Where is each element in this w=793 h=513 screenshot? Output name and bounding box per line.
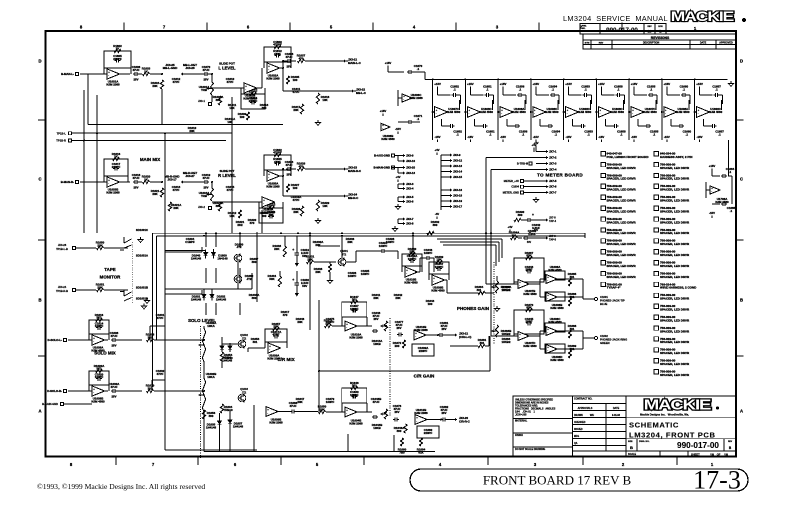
svg-text:100PF: 100PF — [424, 251, 433, 255]
svg-text:NO.: NO. — [582, 28, 586, 30]
svg-text:-: - — [600, 113, 601, 116]
svg-text:.1: .1 — [456, 132, 459, 136]
svg-text:NJM 4560: NJM 4560 — [91, 399, 105, 403]
svg-text:-15V: -15V — [709, 211, 715, 215]
svg-text:10K: 10K — [322, 98, 328, 102]
svg-text:PCB, LM3204 FRONT BOARD: PCB, LM3204 FRONT BOARD — [607, 155, 650, 159]
svg-text:20K: 20K — [293, 108, 299, 112]
svg-text:SHEET: SHEET — [691, 453, 700, 457]
svg-text:SPACER, LED DRVR: SPACER, LED DRVR — [660, 209, 690, 213]
svg-text:47PF: 47PF — [227, 80, 234, 84]
svg-text:301: 301 — [477, 288, 482, 292]
svg-text:1N4148: 1N4148 — [233, 424, 244, 428]
svg-text:1N4148: 1N4148 — [217, 256, 228, 260]
svg-text:25V: 25V — [397, 326, 402, 330]
svg-text:100: 100 — [428, 302, 433, 306]
svg-text:PHONES-JACK-TIP: PHONES-JACK-TIP — [600, 299, 625, 303]
svg-text:TP1B-L: TP1B-L — [57, 131, 67, 135]
svg-text:JX0-1: JX0-1 — [198, 99, 205, 103]
svg-text:L LEVEL: L LEVEL — [218, 66, 236, 71]
svg-text:301: 301 — [512, 233, 517, 237]
svg-text:.1: .1 — [555, 132, 558, 136]
svg-text:SPACER, LED DRVR: SPACER, LED DRVR — [660, 242, 690, 246]
svg-text:20K: 20K — [347, 240, 353, 244]
svg-text:TAPE: TAPE — [104, 267, 115, 272]
svg-text:JX3-12: JX3-12 — [453, 159, 462, 163]
svg-text:.1: .1 — [417, 117, 420, 121]
svg-text:+: + — [532, 213, 534, 217]
svg-text:NJM 2068: NJM 2068 — [106, 82, 120, 86]
svg-text:100PF: 100PF — [386, 240, 395, 244]
svg-text:-: - — [501, 113, 502, 116]
svg-text:360: 360 — [252, 296, 257, 300]
svg-text:-: - — [436, 113, 437, 116]
svg-text:10KB2: 10KB2 — [502, 332, 511, 336]
svg-text:SPACER, LED DRVR: SPACER, LED DRVR — [607, 220, 637, 224]
svg-text:SPACER, LED DRVR: SPACER, LED DRVR — [660, 166, 690, 170]
svg-text:47PF: 47PF — [157, 372, 164, 376]
svg-text:-15V: -15V — [395, 127, 401, 131]
svg-text:470PF: 470PF — [273, 43, 282, 47]
svg-text:50V: 50V — [302, 284, 307, 288]
svg-text:WH: WH — [590, 413, 594, 417]
svg-text:990-017-00: 990-017-00 — [606, 27, 638, 34]
svg-text:18: 18 — [724, 453, 728, 457]
svg-text:JX3-27: JX3-27 — [185, 174, 195, 178]
svg-text:10KB2: 10KB2 — [502, 288, 511, 292]
svg-text:SOLO MIX: SOLO MIX — [94, 351, 116, 356]
svg-text:NJM 4560: NJM 4560 — [643, 110, 657, 114]
svg-text:20K: 20K — [293, 210, 299, 214]
svg-text:SPACER, LED DRVR: SPACER, LED DRVR — [607, 242, 637, 246]
svg-text:GREEN: GREEN — [600, 341, 610, 345]
svg-text:47UF: 47UF — [202, 176, 209, 180]
svg-text:JT2: JT2 — [242, 337, 247, 341]
svg-text:47UF: 47UF — [289, 404, 296, 408]
svg-text:301: 301 — [480, 341, 485, 345]
svg-text:SD1601C: SD1601C — [136, 228, 148, 232]
svg-text:JX3-7: JX3-7 — [406, 217, 414, 221]
svg-text:JX3-3: JX3-3 — [406, 182, 414, 186]
svg-text:.1: .1 — [584, 87, 587, 91]
svg-text:+15V: +15V — [565, 82, 572, 86]
svg-text:MB-R-C: MB-R-C — [348, 196, 358, 200]
svg-text:JX3-14: JX3-14 — [453, 170, 462, 174]
svg-text:JX7-2: JX7-2 — [549, 156, 557, 160]
svg-text:-: - — [547, 332, 548, 335]
svg-text:D: D — [740, 59, 743, 64]
svg-text:301: 301 — [253, 340, 258, 344]
svg-text:CONTRACT NO.: CONTRACT NO. — [574, 398, 593, 401]
svg-text:+15V: +15V — [380, 109, 387, 113]
svg-text:JX3-15: JX3-15 — [453, 175, 462, 179]
svg-text:Q1603: Q1603 — [240, 387, 248, 391]
svg-text:+15V: +15V — [533, 82, 540, 86]
svg-text:100PF: 100PF — [350, 393, 359, 397]
svg-text:REV: REV — [599, 43, 604, 45]
svg-text:-: - — [698, 113, 699, 116]
svg-text:APPROVED: APPROVED — [719, 42, 733, 45]
svg-text:+15V: +15V — [709, 164, 716, 168]
svg-text:200: 200 — [395, 344, 400, 348]
svg-text:100PF: 100PF — [435, 265, 444, 269]
svg-text:47PF: 47PF — [293, 90, 300, 94]
svg-text:TRB10: TRB10 — [223, 408, 233, 412]
svg-text:SPACER, LED DRVR: SPACER, LED DRVR — [607, 199, 637, 203]
svg-text:JX3-13: JX3-13 — [453, 164, 462, 168]
svg-text:100PF: 100PF — [95, 375, 104, 379]
svg-text:SPACER, LED DRVR: SPACER, LED DRVR — [607, 209, 637, 213]
svg-text:Q1601: Q1601 — [340, 249, 348, 253]
svg-text:NJM 4560: NJM 4560 — [550, 358, 564, 362]
svg-text:360: 360 — [252, 260, 257, 264]
svg-text:A: A — [740, 409, 743, 414]
svg-text:JT2: JT2 — [242, 391, 247, 395]
svg-text:ISSUED: ISSUED — [574, 429, 583, 431]
svg-text:-15V: -15V — [664, 135, 670, 139]
svg-text:B-MAN-R-: B-MAN-R- — [61, 180, 74, 184]
svg-text:HARNESS ASSY, 2 PIN: HARNESS ASSY, 2 PIN — [660, 155, 692, 159]
svg-text:C1602: C1602 — [600, 334, 608, 338]
svg-text:47PF: 47PF — [274, 160, 281, 164]
svg-text:D: D — [38, 59, 41, 64]
svg-text:20K: 20K — [97, 285, 103, 289]
svg-text:D-SOLO-R-: D-SOLO-R- — [47, 389, 62, 393]
svg-text:SD1601B: SD1601B — [136, 286, 148, 290]
svg-text:470PF: 470PF — [273, 151, 282, 155]
svg-text:-: - — [403, 99, 404, 102]
svg-text:R LEVEL: R LEVEL — [218, 173, 236, 178]
svg-text:.1: .1 — [686, 132, 689, 136]
svg-text:C/R-R-C: C/R-R-C — [459, 419, 470, 423]
svg-text:-: - — [406, 273, 407, 276]
svg-text:-: - — [534, 113, 535, 116]
svg-text:470: 470 — [299, 56, 304, 60]
svg-text:NJM 4560: NJM 4560 — [512, 110, 526, 114]
svg-text:25V: 25V — [287, 173, 292, 177]
svg-text:NJM 4560: NJM 4560 — [523, 292, 537, 296]
svg-text:B-AUX-GND: B-AUX-GND — [374, 154, 390, 158]
svg-text:1N4148: 1N4148 — [216, 297, 227, 301]
svg-text:301: 301 — [352, 384, 357, 388]
svg-text:-: - — [665, 113, 666, 116]
svg-text:9-01-93: 9-01-93 — [612, 415, 621, 417]
svg-text:JX7-5: JX7-5 — [549, 179, 557, 183]
svg-text:20K: 20K — [315, 270, 321, 274]
svg-text:100: 100 — [293, 78, 298, 82]
svg-text:NJM 4560: NJM 4560 — [404, 280, 418, 284]
svg-text:17-3: 17-3 — [693, 466, 741, 495]
svg-text:CHECKED: CHECKED — [574, 422, 586, 424]
svg-text:NJM 4560: NJM 4560 — [545, 110, 559, 114]
svg-text:.1: .1 — [617, 87, 620, 91]
svg-text:D-SOLO-L-: D-SOLO-L- — [48, 338, 63, 342]
svg-text:220PF: 220PF — [419, 349, 428, 353]
svg-text:WIRE HARNESS, 2 COND: WIRE HARNESS, 2 COND — [660, 286, 697, 290]
svg-text:SPACER, LED DRVR: SPACER, LED DRVR — [660, 308, 690, 312]
svg-text:-: - — [346, 413, 347, 416]
svg-text:470: 470 — [299, 164, 304, 168]
svg-text:TYRAP 4": TYRAP 4" — [607, 286, 622, 290]
svg-text:MAIN-L-C: MAIN-L-C — [348, 61, 361, 65]
svg-text:-: - — [346, 327, 347, 330]
svg-text:20K: 20K — [273, 325, 279, 329]
svg-text:360: 360 — [262, 106, 267, 110]
svg-text:NJM 4560: NJM 4560 — [550, 306, 564, 310]
svg-text:MFG: MFG — [574, 436, 579, 438]
svg-text:JX7-3: JX7-3 — [549, 162, 557, 166]
svg-text:+4V: +4V — [434, 148, 439, 152]
svg-text:OF: OF — [717, 453, 721, 457]
svg-text:QA: QA — [574, 442, 578, 445]
svg-text:-: - — [269, 349, 270, 352]
svg-text:360: 360 — [518, 213, 523, 217]
svg-text:SYM: SYM — [585, 43, 590, 45]
svg-text:JX3-28: JX3-28 — [58, 243, 67, 247]
svg-text:+15V: +15V — [500, 82, 507, 86]
svg-text:25V: 25V — [204, 78, 209, 82]
svg-text:SPACER, LED DRVR: SPACER, LED DRVR — [660, 318, 690, 322]
svg-text:20K: 20K — [315, 243, 321, 247]
svg-text:(C/R-L-C): (C/R-L-C) — [459, 335, 471, 339]
svg-text:100PF: 100PF — [350, 307, 359, 311]
svg-text:25V: 25V — [395, 410, 400, 414]
svg-text:100PF: 100PF — [408, 257, 417, 261]
svg-text:.1: .1 — [489, 132, 492, 136]
svg-text:DATE: DATE — [613, 407, 620, 410]
svg-text:.1: .1 — [653, 132, 656, 136]
svg-text:NJM 4560: NJM 4560 — [548, 268, 562, 272]
svg-text:SPACER, LED DRVR: SPACER, LED DRVR — [607, 188, 637, 192]
svg-text:20K: 20K — [152, 192, 158, 196]
svg-text:JT2: JT2 — [247, 277, 252, 281]
svg-text:NJM 4560: NJM 4560 — [676, 110, 690, 114]
svg-text:+15V: +15V — [664, 82, 671, 86]
svg-text:.1: .1 — [730, 209, 733, 213]
svg-text:ECN: ECN — [658, 26, 663, 28]
svg-text:SPACER, LED DRVR: SPACER, LED DRVR — [607, 177, 637, 181]
svg-text:10K: 10K — [322, 204, 328, 208]
svg-text:SPACER, LED DRVR: SPACER, LED DRVR — [607, 166, 637, 170]
svg-text:-: - — [469, 113, 470, 116]
svg-text:SPACER, LED DRVR: SPACER, LED DRVR — [660, 220, 690, 224]
svg-text:B: B — [38, 298, 41, 303]
svg-text:220PF: 220PF — [112, 165, 121, 169]
svg-text:20K: 20K — [373, 296, 379, 300]
svg-text:+: + — [292, 278, 294, 282]
svg-text:.1: .1 — [486, 87, 489, 91]
svg-text:-: - — [108, 183, 109, 186]
svg-text:-15V: -15V — [566, 135, 572, 139]
svg-text:SPACER, LED DRVR: SPACER, LED DRVR — [660, 188, 690, 192]
svg-text:REV: REV — [647, 26, 652, 28]
svg-text:-: - — [567, 113, 568, 116]
svg-text:360: 360 — [262, 214, 267, 218]
svg-text:-: - — [93, 341, 94, 344]
svg-text:NJM 4560: NJM 4560 — [447, 110, 461, 114]
svg-text:NJM 2068: NJM 2068 — [266, 76, 280, 80]
svg-text:.1: .1 — [522, 132, 525, 136]
svg-text:.1: .1 — [417, 67, 420, 71]
svg-text:SPACER, LED DRVR: SPACER, LED DRVR — [660, 264, 690, 268]
svg-text:LM3204 SERVICE MANUAL: LM3204 SERVICE MANUAL — [563, 14, 668, 23]
svg-text:JX3-6: JX3-6 — [406, 200, 414, 204]
svg-text:2K2: 2K2 — [237, 223, 243, 227]
svg-text:-: - — [711, 191, 712, 194]
svg-text:3K1: 3K1 — [96, 367, 102, 371]
svg-text:25V: 25V — [134, 78, 139, 82]
svg-text:JX3-5: JX3-5 — [406, 195, 414, 199]
svg-text:-: - — [632, 113, 633, 116]
svg-text:TP1B-L-B: TP1B-L-B — [56, 247, 68, 251]
svg-text:JX7-7: JX7-7 — [549, 190, 557, 194]
svg-text:20K: 20K — [274, 247, 280, 251]
svg-text:47UF: 47UF — [110, 385, 117, 389]
svg-text:JX3-24: JX3-24 — [58, 285, 67, 289]
svg-text:47PF: 47PF — [274, 52, 281, 56]
svg-text:47UF: 47UF — [132, 176, 139, 180]
svg-text:.1: .1 — [718, 132, 721, 136]
svg-text:18: 18 — [648, 30, 652, 34]
svg-text:1N4148: 1N4148 — [191, 256, 202, 260]
svg-text:JX3-26: JX3-26 — [185, 66, 195, 70]
svg-text:PHONES GAIN: PHONES GAIN — [457, 306, 490, 311]
svg-text:-15V: -15V — [467, 135, 473, 139]
svg-text:DESCRIPTION: DESCRIPTION — [643, 42, 660, 45]
svg-text:JX3-13: JX3-13 — [406, 171, 415, 175]
svg-text:JX3-18: JX3-18 — [453, 194, 462, 198]
svg-text:100PF: 100PF — [379, 244, 388, 248]
svg-text:-: - — [382, 128, 383, 131]
svg-text:DWG. NO.: DWG. NO. — [639, 441, 650, 443]
svg-text:TRB10: TRB10 — [223, 356, 233, 360]
svg-text:-: - — [547, 350, 548, 353]
svg-text:DRAWN: DRAWN — [574, 414, 583, 417]
svg-text:10KB2: 10KB2 — [502, 340, 511, 344]
svg-text:25V: 25V — [287, 65, 292, 69]
svg-text:-: - — [268, 177, 269, 180]
svg-text:47UF: 47UF — [110, 334, 117, 338]
svg-text:-15V: -15V — [533, 135, 539, 139]
svg-text:-: - — [267, 412, 268, 415]
svg-text:+15V: +15V — [434, 82, 441, 86]
svg-text:47UF: 47UF — [372, 400, 379, 404]
svg-text:47UF: 47UF — [202, 68, 209, 72]
svg-text:.1: .1 — [620, 132, 623, 136]
svg-text:NJM 2068: NJM 2068 — [409, 96, 423, 100]
svg-text:50V: 50V — [527, 241, 532, 244]
svg-text:B-TRB-M: B-TRB-M — [517, 162, 528, 166]
svg-text:10K: 10K — [436, 258, 442, 262]
svg-text:B-MAN-L-: B-MAN-L- — [61, 72, 74, 76]
svg-text:-: - — [108, 75, 109, 78]
svg-text:-15V: -15V — [500, 135, 506, 139]
svg-text:MAIN MIX: MAIN MIX — [140, 157, 160, 162]
svg-text:10K: 10K — [229, 214, 235, 218]
svg-text:Q1602: Q1602 — [240, 333, 248, 337]
svg-text:METER_+4V: METER_+4V — [504, 179, 519, 183]
svg-text:25V: 25V — [112, 395, 117, 399]
svg-text:47UF: 47UF — [285, 55, 292, 59]
svg-text:SPACER, LED DRVR: SPACER, LED DRVR — [660, 275, 690, 279]
svg-text:.1: .1 — [519, 87, 522, 91]
svg-text:.1: .1 — [587, 132, 590, 136]
svg-text:.1: .1 — [650, 87, 653, 91]
svg-text:63K: 63K — [526, 306, 532, 310]
svg-text:JX7-6: JX7-6 — [549, 185, 557, 189]
svg-text:1N4148: 1N4148 — [191, 297, 202, 301]
svg-text:JX3-10: JX3-10 — [406, 159, 415, 163]
svg-text:SPACER, LED DRVR: SPACER, LED DRVR — [660, 177, 690, 181]
svg-text:NJM 2068: NJM 2068 — [349, 421, 363, 425]
svg-text:TP1B-R: TP1B-R — [56, 139, 66, 143]
svg-text:-: - — [519, 337, 520, 340]
svg-text:220PF: 220PF — [424, 431, 433, 435]
svg-text:APPROVALS: APPROVALS — [578, 407, 593, 410]
svg-text:TRB: TRB — [201, 88, 207, 92]
svg-text:DATE: DATE — [700, 42, 707, 45]
svg-text:470: 470 — [283, 313, 288, 317]
svg-text:-: - — [245, 89, 246, 92]
svg-text:MONITOR: MONITOR — [100, 275, 121, 280]
svg-text:20K: 20K — [409, 250, 415, 254]
svg-text:47UF: 47UF — [285, 163, 292, 167]
svg-text:SPACER, LED DRVR: SPACER, LED DRVR — [660, 362, 690, 366]
svg-text:-15V: -15V — [598, 135, 604, 139]
svg-text:SPACER, LED DRVR: SPACER, LED DRVR — [660, 340, 690, 344]
svg-text:JX3-9: JX3-9 — [453, 153, 461, 157]
svg-text:NJM 4560: NJM 4560 — [611, 110, 625, 114]
svg-text:47UF: 47UF — [132, 68, 139, 72]
svg-text:NJM 4560: NJM 4560 — [431, 288, 445, 292]
svg-text:NJM 4560: NJM 4560 — [709, 110, 723, 114]
svg-text:10K: 10K — [227, 120, 233, 124]
svg-text:+15V: +15V — [696, 82, 703, 86]
svg-text:47PF: 47PF — [173, 80, 180, 84]
svg-text:JX3-19: JX3-19 — [453, 199, 462, 203]
svg-text:DO NOT SCALE DRAWING: DO NOT SCALE DRAWING — [515, 448, 545, 451]
svg-text:TRB: TRB — [201, 194, 207, 198]
svg-text:-: - — [547, 298, 548, 301]
svg-text:METER_GND: METER_GND — [503, 190, 519, 194]
svg-text:SPACER, LED DRVR: SPACER, LED DRVR — [660, 253, 690, 257]
svg-text:10K: 10K — [229, 106, 235, 110]
svg-text:SPACER, LED DRVR: SPACER, LED DRVR — [607, 253, 637, 257]
svg-text:JX3-20: JX3-20 — [406, 166, 415, 170]
svg-text:+4V: +4V — [395, 175, 400, 179]
svg-text:JX3-9: JX3-9 — [406, 154, 414, 158]
svg-text:-: - — [519, 285, 520, 288]
svg-text:JX3-8: JX3-8 — [406, 222, 414, 226]
svg-text:+4V: +4V — [533, 141, 538, 145]
svg-text:JX3-17: JX3-17 — [167, 177, 177, 181]
svg-text:SPACER, LED DRVR: SPACER, LED DRVR — [660, 231, 690, 235]
svg-text:C: C — [38, 177, 41, 182]
svg-text:47PF: 47PF — [157, 316, 164, 320]
svg-text:JX0-2: JX0-2 — [198, 205, 205, 209]
svg-text:47PF: 47PF — [273, 333, 280, 337]
svg-text:SD1601D: SD1601D — [136, 297, 148, 301]
svg-text:SPACER, LED DRVR: SPACER, LED DRVR — [660, 199, 690, 203]
svg-text:NJM 2068: NJM 2068 — [349, 335, 363, 339]
svg-text:.1: .1 — [552, 87, 555, 91]
svg-text:MATERIAL: MATERIAL — [515, 420, 528, 423]
svg-text:25V: 25V — [374, 317, 379, 321]
svg-text:20K: 20K — [297, 400, 303, 404]
svg-text:REV: REV — [728, 441, 733, 443]
svg-text:B-GAIN-GND: B-GAIN-GND — [42, 402, 58, 406]
svg-text:-15V: -15V — [697, 135, 703, 139]
